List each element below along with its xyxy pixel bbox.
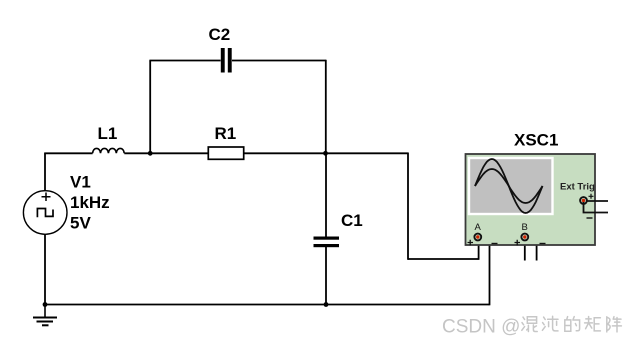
wire Ext Trig minus stub <box>584 202 609 213</box>
watermark glyph ju <box>585 317 601 331</box>
inductor L1 <box>93 148 125 153</box>
wire scope A minus vertical to ground wire <box>489 237 491 305</box>
node junction dot (R1/C2/C1 branch) <box>323 151 328 156</box>
wire main horizontal (R1 to corner) <box>244 152 408 154</box>
ground <box>33 305 57 326</box>
wire scope branch vertical down <box>407 153 409 260</box>
wire C2 branch right vertical <box>325 60 327 154</box>
node junction dot (C1 bottom) <box>324 302 329 307</box>
V1 plus sign <box>42 193 51 202</box>
svg-text:CSDN @: CSDN @ <box>442 317 520 338</box>
node junction dot (ground) <box>43 302 48 307</box>
wire scope B minus stub <box>536 236 538 260</box>
V1 square wave glyph <box>37 209 53 218</box>
wire scope B minus jog <box>525 236 537 238</box>
XSC1 channel A terminal <box>474 234 481 241</box>
wire main horizontal (L1 to R1) <box>124 152 208 154</box>
XSC1 Ext Trig minus mark <box>587 217 593 219</box>
resistor R1 <box>208 147 243 159</box>
wire scope A minus jog <box>478 236 490 238</box>
watermark glyph hun <box>522 317 537 332</box>
oscilloscope XSC1 body <box>466 154 596 245</box>
wire main horizontal left (node to L1) <box>44 152 92 154</box>
XSC1 Ext Trig terminal <box>580 197 587 204</box>
wire C2 top left horizontal <box>149 60 220 62</box>
XSC1 Ext Trig plus mark <box>589 194 594 199</box>
wire scope branch horizontal to A <box>408 258 479 260</box>
wire bottom horizontal <box>45 304 490 306</box>
wire C1 branch lower vertical <box>325 247 327 305</box>
wire C1 branch upper vertical <box>325 153 327 236</box>
XSC1 screen <box>469 158 553 214</box>
wire scope B plus stub <box>524 240 526 261</box>
XSC1 screen waveform B <box>475 169 543 203</box>
wire C2 branch left vertical <box>149 61 151 154</box>
XSC1 channel B terminal <box>521 234 528 241</box>
wire scope A plus stub up <box>478 239 480 260</box>
XSC1 channel B plus mark <box>515 240 521 245</box>
XSC1 screen waveform A <box>475 159 543 213</box>
capacitor C1 <box>314 237 340 248</box>
watermark glyph dun <box>542 316 558 331</box>
wire Ext Trig plus stub <box>586 200 608 202</box>
capacitor C2 <box>221 48 232 73</box>
voltage source V1 (square wave source) <box>23 191 67 235</box>
XSC1 channel B minus mark <box>540 243 546 245</box>
wire C2 top right horizontal <box>232 60 326 62</box>
wire left rail top (V1 top to main wire) <box>44 153 46 191</box>
watermark glyph zhen <box>607 317 622 332</box>
XSC1 channel A plus mark <box>468 240 474 245</box>
XSC1 channel A minus mark <box>492 243 498 245</box>
node junction dot (L1/C2 branch) <box>148 151 153 156</box>
watermark glyph de <box>565 317 580 332</box>
wire left rail bottom (V1 bottom to bottom wire) <box>44 234 46 305</box>
